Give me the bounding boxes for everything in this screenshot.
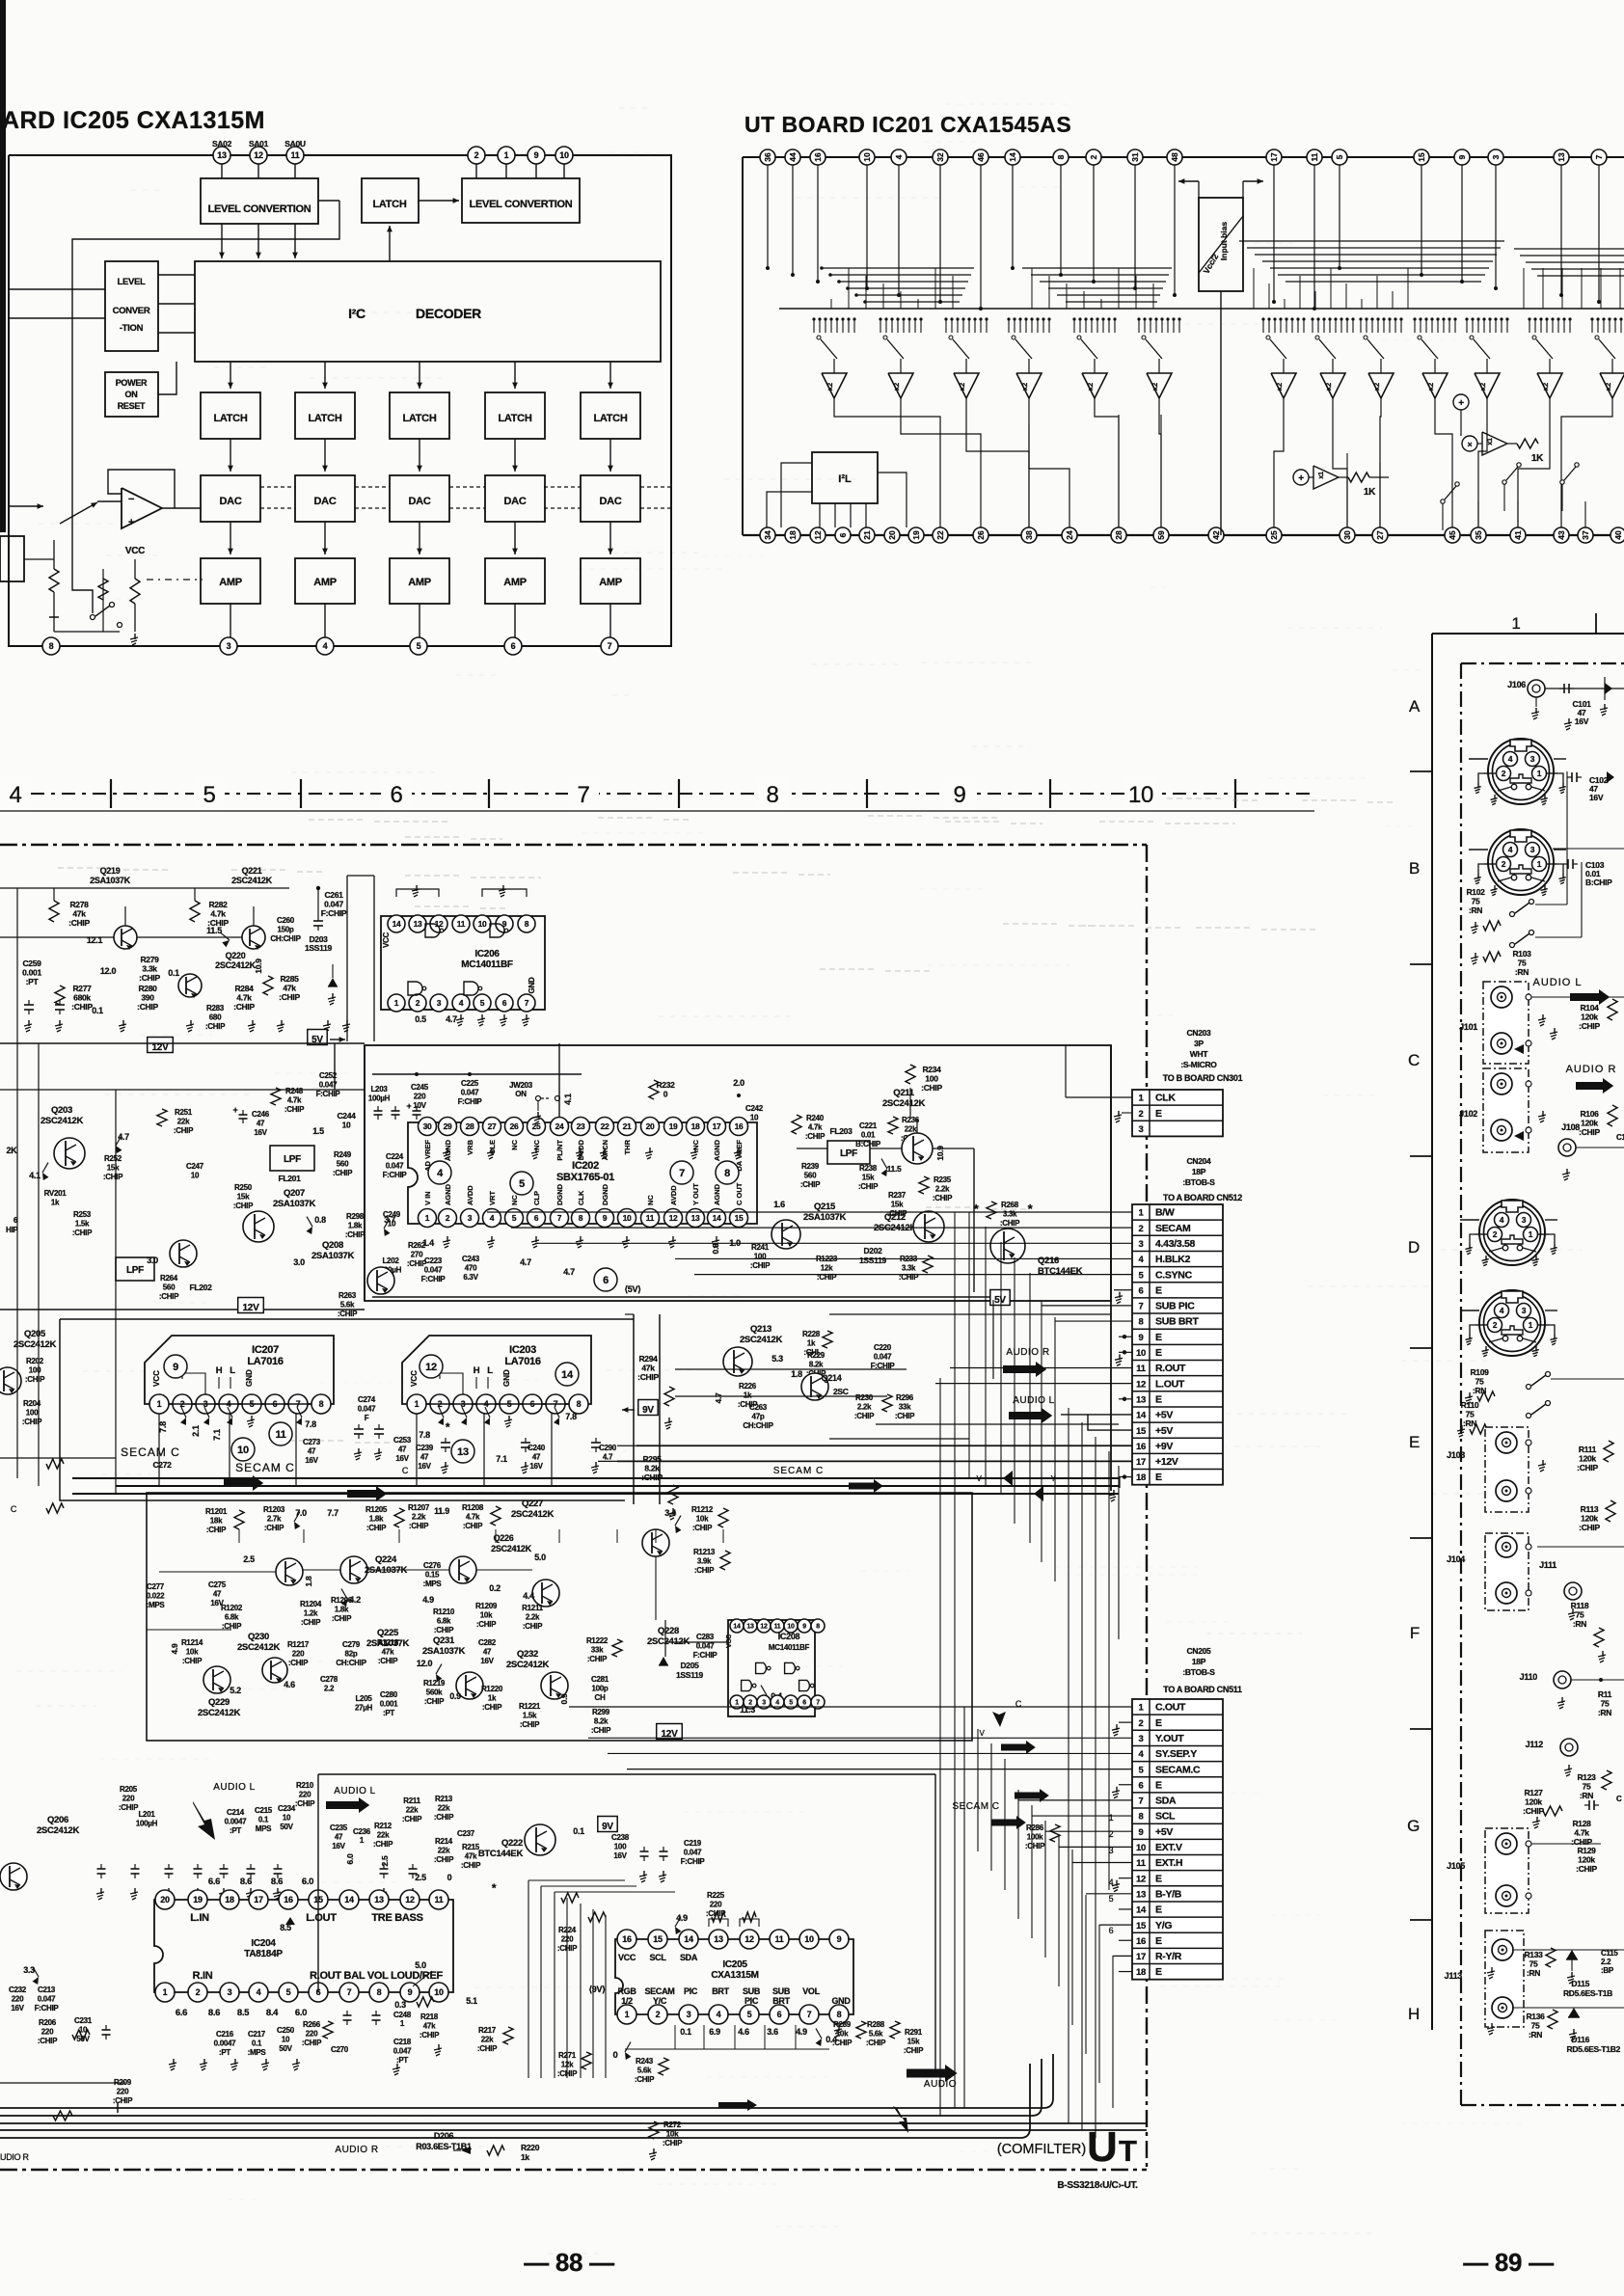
svg-text:3: 3 xyxy=(1139,1239,1144,1250)
svg-text:SBX1765-01: SBX1765-01 xyxy=(556,1172,614,1183)
svg-text:2SA1037K: 2SA1037K xyxy=(273,1199,316,1209)
svg-text:C236: C236 xyxy=(353,1827,371,1836)
svg-text:120k: 120k xyxy=(1581,1514,1598,1524)
svg-text:2: 2 xyxy=(1502,859,1506,869)
svg-text:28: 28 xyxy=(466,1121,474,1131)
svg-text:1: 1 xyxy=(394,998,399,1008)
svg-text:11: 11 xyxy=(1310,152,1319,161)
svg-text:44: 44 xyxy=(788,152,798,162)
svg-text:7: 7 xyxy=(347,1987,352,1997)
svg-text:6.0: 6.0 xyxy=(302,1877,313,1887)
svg-text:9: 9 xyxy=(603,1213,608,1223)
svg-text:22k: 22k xyxy=(438,1804,450,1813)
svg-text::CHIP: :CHIP xyxy=(113,2096,133,2105)
svg-text:E: E xyxy=(1155,1284,1162,1296)
svg-text:16: 16 xyxy=(284,1895,293,1904)
svg-text::RN: :RN xyxy=(1529,2030,1542,2039)
svg-text:26: 26 xyxy=(976,530,986,540)
svg-text:1k: 1k xyxy=(744,1391,752,1400)
svg-text::CHIP: :CHIP xyxy=(279,992,300,1002)
svg-text:13: 13 xyxy=(1556,152,1566,162)
svg-text:R272: R272 xyxy=(663,2120,682,2129)
svg-text:RESET: RESET xyxy=(118,401,146,411)
svg-text:D202: D202 xyxy=(863,1246,882,1256)
svg-text:11: 11 xyxy=(457,919,466,929)
svg-text:R288: R288 xyxy=(867,2020,885,2029)
svg-text:8: 8 xyxy=(525,919,529,929)
svg-text:AUDIO R: AUDIO R xyxy=(1006,1347,1049,1358)
svg-text:C: C xyxy=(11,1504,17,1514)
svg-text:8: 8 xyxy=(1139,1812,1144,1823)
svg-text:6.6: 6.6 xyxy=(208,1877,220,1887)
svg-text:5: 5 xyxy=(519,1178,525,1190)
svg-text:15k: 15k xyxy=(907,2038,920,2046)
svg-text:5.6k: 5.6k xyxy=(637,2066,652,2075)
svg-text:R241: R241 xyxy=(751,1243,770,1252)
svg-text:0.047: 0.047 xyxy=(393,2047,412,2056)
svg-text::CHIP: :CHIP xyxy=(373,1840,393,1849)
svg-text:R1211: R1211 xyxy=(522,1604,543,1612)
svg-text::CHIP: :CHIP xyxy=(119,1803,139,1812)
svg-text:CONVER: CONVER xyxy=(113,306,150,316)
svg-text:Q228: Q228 xyxy=(658,1626,679,1636)
svg-text:2SC: 2SC xyxy=(833,1387,849,1396)
svg-text:Q222: Q222 xyxy=(501,1838,523,1849)
svg-text::CHIP: :CHIP xyxy=(68,918,90,928)
svg-text:H: H xyxy=(474,1365,480,1376)
svg-text:CH: CH xyxy=(595,1693,606,1702)
svg-text:4: 4 xyxy=(717,2010,721,2019)
svg-text::CHIP: :CHIP xyxy=(858,1182,879,1191)
svg-text:12: 12 xyxy=(405,1895,415,1904)
svg-text:1: 1 xyxy=(735,1700,739,1707)
svg-text:4.7: 4.7 xyxy=(520,1257,531,1267)
svg-text:C224: C224 xyxy=(386,1152,404,1161)
svg-text:R1219: R1219 xyxy=(423,1679,446,1688)
svg-text:100: 100 xyxy=(29,1366,41,1375)
svg-text:C220: C220 xyxy=(874,1343,892,1352)
svg-text:LEVEL CONVERTION: LEVEL CONVERTION xyxy=(208,203,311,215)
svg-text:14: 14 xyxy=(1136,1905,1147,1916)
svg-text:C250: C250 xyxy=(277,2026,295,2035)
svg-text:F:CHIP: F:CHIP xyxy=(458,1097,483,1106)
svg-text:C.OUT: C.OUT xyxy=(1155,1702,1186,1714)
svg-text:2.0: 2.0 xyxy=(733,1078,744,1088)
svg-text::CHIP: :CHIP xyxy=(402,1815,422,1823)
svg-text:R1214: R1214 xyxy=(181,1638,203,1647)
svg-text:C.SYNC: C.SYNC xyxy=(1155,1269,1193,1281)
svg-text:C275: C275 xyxy=(208,1580,227,1589)
svg-text:4: 4 xyxy=(9,782,21,808)
svg-text:Q214: Q214 xyxy=(822,1373,842,1383)
svg-text:-TION: -TION xyxy=(120,323,144,334)
svg-text:F:CHIP: F:CHIP xyxy=(316,1090,341,1098)
svg-text:0.001: 0.001 xyxy=(22,968,41,978)
svg-text:1: 1 xyxy=(1537,769,1542,778)
svg-text:F:CHIP: F:CHIP xyxy=(681,1857,706,1866)
svg-text:VCC: VCC xyxy=(618,1953,636,1962)
svg-text:1.8k: 1.8k xyxy=(348,1222,363,1230)
svg-text:8: 8 xyxy=(577,1399,582,1409)
svg-text:47k: 47k xyxy=(283,984,296,993)
svg-text:R109: R109 xyxy=(1470,1367,1489,1377)
svg-text:12: 12 xyxy=(1136,1874,1146,1884)
svg-text:2SA1037K: 2SA1037K xyxy=(803,1212,847,1223)
svg-text:L205: L205 xyxy=(355,1694,372,1703)
svg-text:12: 12 xyxy=(425,1362,437,1373)
svg-text:4.7k: 4.7k xyxy=(287,1096,302,1105)
svg-text:48: 48 xyxy=(1170,152,1179,162)
svg-text:F:CHIP: F:CHIP xyxy=(35,2004,60,2012)
svg-text::MPS: :MPS xyxy=(423,1580,443,1588)
svg-text:9: 9 xyxy=(837,1934,842,1944)
svg-text:43: 43 xyxy=(1556,530,1566,540)
svg-text:12: 12 xyxy=(744,1934,754,1944)
svg-text:0.047: 0.047 xyxy=(386,1162,404,1171)
svg-text:1K: 1K xyxy=(1531,453,1544,464)
svg-text:Q216: Q216 xyxy=(1038,1256,1059,1266)
svg-text:3P: 3P xyxy=(1194,1039,1204,1048)
svg-text:10: 10 xyxy=(559,150,569,160)
svg-text:24: 24 xyxy=(1065,530,1074,540)
svg-text:8.4: 8.4 xyxy=(266,2008,279,2018)
svg-text:1.2k: 1.2k xyxy=(304,1609,318,1618)
svg-text:I²C: I²C xyxy=(348,306,365,321)
svg-text:E: E xyxy=(1155,1108,1162,1120)
svg-text:BTC144EK: BTC144EK xyxy=(478,1849,524,1859)
svg-text:5: 5 xyxy=(480,998,485,1008)
svg-text:3: 3 xyxy=(1522,1215,1527,1225)
svg-text:100: 100 xyxy=(754,1253,767,1261)
svg-text:Q229: Q229 xyxy=(208,1697,230,1708)
svg-text:E: E xyxy=(1155,1472,1162,1483)
svg-text:4: 4 xyxy=(1500,1306,1504,1315)
svg-text:R252: R252 xyxy=(104,1154,122,1163)
svg-text:x2: x2 xyxy=(1604,383,1612,391)
svg-text:R103: R103 xyxy=(1512,949,1531,959)
svg-text:3.4: 3.4 xyxy=(664,1508,676,1518)
svg-text:0.047: 0.047 xyxy=(461,1089,479,1097)
svg-text:1.5: 1.5 xyxy=(312,1126,324,1136)
svg-text:R133: R133 xyxy=(1524,1950,1543,1959)
svg-text:14: 14 xyxy=(733,1624,741,1631)
svg-text:R110: R110 xyxy=(1461,1400,1479,1410)
svg-text:3: 3 xyxy=(1491,154,1501,159)
svg-text:4: 4 xyxy=(1500,1215,1504,1225)
svg-text:9: 9 xyxy=(534,150,539,160)
svg-text:2.1: 2.1 xyxy=(191,1425,201,1437)
svg-text:47: 47 xyxy=(213,1590,222,1599)
svg-text::CHIP: :CHIP xyxy=(587,1655,608,1663)
svg-text::CHIP: :CHIP xyxy=(407,1259,427,1268)
svg-text::CHIP: :CHIP xyxy=(854,1412,875,1420)
svg-text:R294: R294 xyxy=(638,1354,658,1364)
svg-text:4.7k: 4.7k xyxy=(236,993,252,1003)
svg-text:C290: C290 xyxy=(599,1444,617,1452)
svg-text::BP: :BP xyxy=(1601,1966,1614,1975)
svg-text:2SA1037K: 2SA1037K xyxy=(311,1251,355,1261)
svg-text:18: 18 xyxy=(691,1121,700,1131)
svg-text:5: 5 xyxy=(747,2010,752,2019)
svg-text:5.6k: 5.6k xyxy=(869,2030,883,2039)
svg-text:0.5: 0.5 xyxy=(415,1014,426,1024)
svg-text:F:CHIP: F:CHIP xyxy=(321,908,347,918)
svg-text:MC14011BF: MC14011BF xyxy=(461,959,513,970)
svg-text:16V: 16V xyxy=(210,1599,224,1607)
svg-text:30: 30 xyxy=(1342,530,1352,540)
svg-text:47k: 47k xyxy=(423,2022,436,2031)
svg-text:7: 7 xyxy=(807,2010,812,2019)
svg-text::CHIP: :CHIP xyxy=(637,1372,659,1382)
svg-text:Q219: Q219 xyxy=(100,866,121,876)
svg-text:2SC2412K: 2SC2412K xyxy=(506,1660,550,1670)
svg-text:16: 16 xyxy=(1136,1442,1146,1452)
svg-text:0.8: 0.8 xyxy=(711,1243,720,1254)
svg-text:E: E xyxy=(1155,1393,1162,1405)
svg-text:C261: C261 xyxy=(324,890,343,900)
svg-text:R212: R212 xyxy=(374,1822,392,1830)
svg-text:L201: L201 xyxy=(138,1810,155,1819)
svg-text:10: 10 xyxy=(787,1624,795,1631)
svg-text:0.1: 0.1 xyxy=(252,2039,262,2048)
svg-text:1.8k: 1.8k xyxy=(369,1515,384,1524)
svg-text:8: 8 xyxy=(724,1168,730,1179)
svg-text:11: 11 xyxy=(435,1895,444,1904)
svg-text:9: 9 xyxy=(802,1624,806,1631)
svg-text:1: 1 xyxy=(425,1213,430,1223)
svg-text:R279: R279 xyxy=(140,955,159,964)
svg-text::CHIP: :CHIP xyxy=(482,1703,502,1712)
svg-text:D: D xyxy=(1408,1238,1420,1256)
svg-text:6.6: 6.6 xyxy=(176,2008,187,2018)
svg-text:C273: C273 xyxy=(303,1438,321,1446)
svg-text:14: 14 xyxy=(344,1895,354,1904)
svg-text:8: 8 xyxy=(837,2010,842,2019)
svg-text:120k: 120k xyxy=(1581,1119,1598,1128)
svg-text:DAC: DAC xyxy=(220,496,242,507)
svg-text:12: 12 xyxy=(813,530,823,540)
svg-text:10: 10 xyxy=(434,1987,444,1997)
svg-text::CHIP: :CHIP xyxy=(476,1620,497,1629)
svg-text:18: 18 xyxy=(1136,1967,1146,1978)
svg-text:JW203: JW203 xyxy=(509,1081,533,1090)
svg-text:4.7: 4.7 xyxy=(603,1453,613,1462)
svg-text:12.0: 12.0 xyxy=(417,1659,433,1668)
svg-text:TO A BOARD CN512: TO A BOARD CN512 xyxy=(1163,1193,1242,1202)
svg-text:R1217: R1217 xyxy=(287,1640,310,1649)
svg-text:J106: J106 xyxy=(1507,680,1526,689)
svg-text:1: 1 xyxy=(1511,614,1520,633)
svg-text:DAC: DAC xyxy=(600,496,622,507)
svg-text:Q203: Q203 xyxy=(51,1105,72,1116)
svg-text:5V: 5V xyxy=(994,1295,1006,1306)
svg-text:R214: R214 xyxy=(435,1837,453,1846)
svg-text:+: + xyxy=(1298,473,1304,484)
svg-text:6.3V: 6.3V xyxy=(463,1273,478,1282)
svg-text:17: 17 xyxy=(1136,1457,1146,1468)
svg-text:VCC: VCC xyxy=(410,1370,419,1387)
svg-text:470: 470 xyxy=(465,1264,477,1273)
svg-text:3.0: 3.0 xyxy=(293,1257,305,1267)
svg-text:R113: R113 xyxy=(1581,1504,1599,1514)
svg-text::CHIP: :CHIP xyxy=(692,1524,713,1532)
svg-text:SCL: SCL xyxy=(1155,1811,1176,1823)
svg-text::BTOB-S: :BTOB-S xyxy=(1182,1177,1215,1187)
svg-text:23: 23 xyxy=(577,1121,585,1131)
svg-text:Q225: Q225 xyxy=(377,1628,399,1638)
svg-text:16V: 16V xyxy=(11,2004,24,2012)
svg-text:16: 16 xyxy=(813,152,823,162)
svg-text:C: C xyxy=(1408,1051,1420,1069)
svg-text:Q211: Q211 xyxy=(893,1088,915,1098)
svg-text:Q220: Q220 xyxy=(226,951,246,960)
svg-text::S-MICRO: :S-MICRO xyxy=(1180,1060,1217,1069)
svg-text:1.5k: 1.5k xyxy=(75,1220,90,1229)
svg-text:THR: THR xyxy=(623,1139,632,1154)
svg-text:R1213: R1213 xyxy=(693,1548,716,1556)
svg-text:Input bias: Input bias xyxy=(1219,222,1229,260)
svg-text::CHIP: :CHIP xyxy=(302,2039,322,2047)
svg-text::RN: :RN xyxy=(1469,905,1482,915)
svg-text:R128: R128 xyxy=(1572,1819,1591,1828)
svg-text:0.3: 0.3 xyxy=(394,2000,406,2010)
svg-text::CHIP: :CHIP xyxy=(1579,1021,1600,1031)
svg-text:2SC2412K: 2SC2412K xyxy=(740,1335,783,1345)
svg-text:14: 14 xyxy=(561,1369,574,1381)
svg-text::CHIP: :CHIP xyxy=(434,1813,454,1822)
svg-text::CHIP: :CHIP xyxy=(420,2031,440,2039)
svg-text:4: 4 xyxy=(894,154,904,159)
svg-text:25: 25 xyxy=(1269,530,1279,540)
svg-text:AUDIO R: AUDIO R xyxy=(1566,1064,1617,1075)
svg-text:R248: R248 xyxy=(285,1087,304,1095)
svg-text:GND: GND xyxy=(502,1369,511,1387)
svg-text:42: 42 xyxy=(1211,530,1221,540)
svg-text:1k: 1k xyxy=(807,1339,816,1348)
svg-text:47: 47 xyxy=(532,1453,541,1462)
svg-text:6: 6 xyxy=(603,1275,609,1286)
svg-text:1k: 1k xyxy=(521,2152,529,2162)
svg-text:R284: R284 xyxy=(234,984,254,993)
svg-text:C221: C221 xyxy=(859,1121,878,1130)
svg-text:VCC: VCC xyxy=(125,546,145,556)
svg-text::RN: :RN xyxy=(1580,1791,1593,1800)
svg-text:CLK: CLK xyxy=(1155,1093,1176,1104)
svg-text:C219: C219 xyxy=(684,1839,702,1848)
svg-text:26: 26 xyxy=(510,1121,519,1131)
svg-text:3: 3 xyxy=(762,1700,766,1707)
svg-text:47: 47 xyxy=(335,1833,343,1842)
svg-text:Y/C: Y/C xyxy=(653,1996,667,2006)
svg-text:8.2k: 8.2k xyxy=(644,1464,660,1473)
svg-text:4.4: 4.4 xyxy=(523,1591,534,1601)
svg-text:13: 13 xyxy=(714,1934,723,1944)
svg-text:SECAM C: SECAM C xyxy=(235,1461,295,1474)
svg-text:AVDD: AVDD xyxy=(466,1185,474,1205)
svg-text:SY.SEP.Y: SY.SEP.Y xyxy=(1155,1748,1197,1760)
svg-text:DAC: DAC xyxy=(314,496,337,507)
svg-text:R263: R263 xyxy=(338,1291,357,1300)
svg-text:R1222: R1222 xyxy=(586,1636,609,1645)
svg-text:CLK: CLK xyxy=(577,1190,585,1205)
svg-text:3: 3 xyxy=(687,2010,691,2019)
svg-text:3.6: 3.6 xyxy=(767,2027,778,2037)
svg-text:50V: 50V xyxy=(279,2044,292,2053)
svg-text::CHIP: :CHIP xyxy=(295,1799,315,1808)
svg-text:R238: R238 xyxy=(859,1164,878,1173)
svg-text:6.0: 6.0 xyxy=(295,2008,307,2018)
svg-text:DGND: DGND xyxy=(555,1183,564,1205)
svg-text:14: 14 xyxy=(1136,1411,1147,1421)
svg-text:C274: C274 xyxy=(358,1395,376,1404)
svg-text::BTOB-S: :BTOB-S xyxy=(1182,1667,1215,1677)
svg-text:R282: R282 xyxy=(208,900,228,909)
svg-text:+5V: +5V xyxy=(1155,1826,1173,1838)
svg-text:41: 41 xyxy=(1513,530,1523,540)
svg-text:3: 3 xyxy=(1139,1734,1144,1744)
svg-text:1: 1 xyxy=(504,150,509,160)
svg-text:R1221: R1221 xyxy=(519,1702,541,1711)
svg-text:AUDIO L: AUDIO L xyxy=(1532,977,1582,988)
svg-text:NC: NC xyxy=(510,1195,519,1205)
svg-text:Q212: Q212 xyxy=(884,1212,906,1223)
svg-text:2SC2412K: 2SC2412K xyxy=(491,1544,531,1553)
svg-text:8: 8 xyxy=(816,1624,820,1631)
svg-text:120k: 120k xyxy=(1578,1855,1595,1865)
svg-text:Y OUT: Y OUT xyxy=(691,1183,700,1205)
svg-text:16: 16 xyxy=(1136,1936,1146,1947)
svg-text:33k: 33k xyxy=(591,1646,604,1655)
svg-text:x2: x2 xyxy=(892,383,901,391)
svg-text::CHIP: :CHIP xyxy=(264,1524,284,1532)
svg-text:6: 6 xyxy=(802,1700,806,1707)
svg-text:75: 75 xyxy=(1518,959,1527,968)
svg-text:16V: 16V xyxy=(418,1462,431,1471)
svg-text::CHIP: :CHIP xyxy=(205,1022,226,1031)
svg-text:2SA1037K: 2SA1037K xyxy=(90,876,130,885)
svg-text::CHIP: :CHIP xyxy=(378,1657,398,1665)
svg-text:16: 16 xyxy=(735,1121,744,1131)
svg-text:Q227: Q227 xyxy=(522,1499,543,1509)
svg-text:F:CHIP: F:CHIP xyxy=(693,1651,718,1660)
svg-text:11: 11 xyxy=(646,1213,655,1223)
svg-text:5: 5 xyxy=(1109,1894,1114,1904)
svg-text:MC14011BF: MC14011BF xyxy=(769,1643,810,1652)
svg-text:*: * xyxy=(446,1420,450,1434)
svg-text:LATCH: LATCH xyxy=(373,199,407,210)
svg-text:6: 6 xyxy=(1139,1285,1144,1296)
svg-text:7: 7 xyxy=(1139,1796,1144,1807)
svg-text:C247: C247 xyxy=(186,1162,204,1171)
svg-text:10k: 10k xyxy=(696,1515,709,1524)
svg-text:J113: J113 xyxy=(1445,1971,1463,1981)
svg-text::CHIP: :CHIP xyxy=(137,1002,158,1012)
svg-text::CHIP: :CHIP xyxy=(832,2039,853,2047)
svg-text:CH:CHIP: CH:CHIP xyxy=(270,934,301,943)
svg-text:(COMFILTER): (COMFILTER) xyxy=(997,2142,1086,2157)
svg-text:DAC: DAC xyxy=(504,496,527,507)
svg-text:A: A xyxy=(1409,697,1421,716)
svg-text:AGND: AGND xyxy=(444,1183,452,1205)
svg-text:⟨9V⟩: ⟨9V⟩ xyxy=(589,1985,606,1994)
svg-text:4.43/3.58: 4.43/3.58 xyxy=(1155,1238,1196,1250)
svg-text:VCC: VCC xyxy=(152,1370,161,1387)
svg-text:0.047: 0.047 xyxy=(874,1353,892,1362)
svg-text::CHIP: :CHIP xyxy=(72,1229,93,1237)
svg-text:10: 10 xyxy=(804,1934,814,1944)
svg-text:19: 19 xyxy=(669,1121,678,1131)
svg-text:B:CHIP: B:CHIP xyxy=(855,1140,881,1148)
